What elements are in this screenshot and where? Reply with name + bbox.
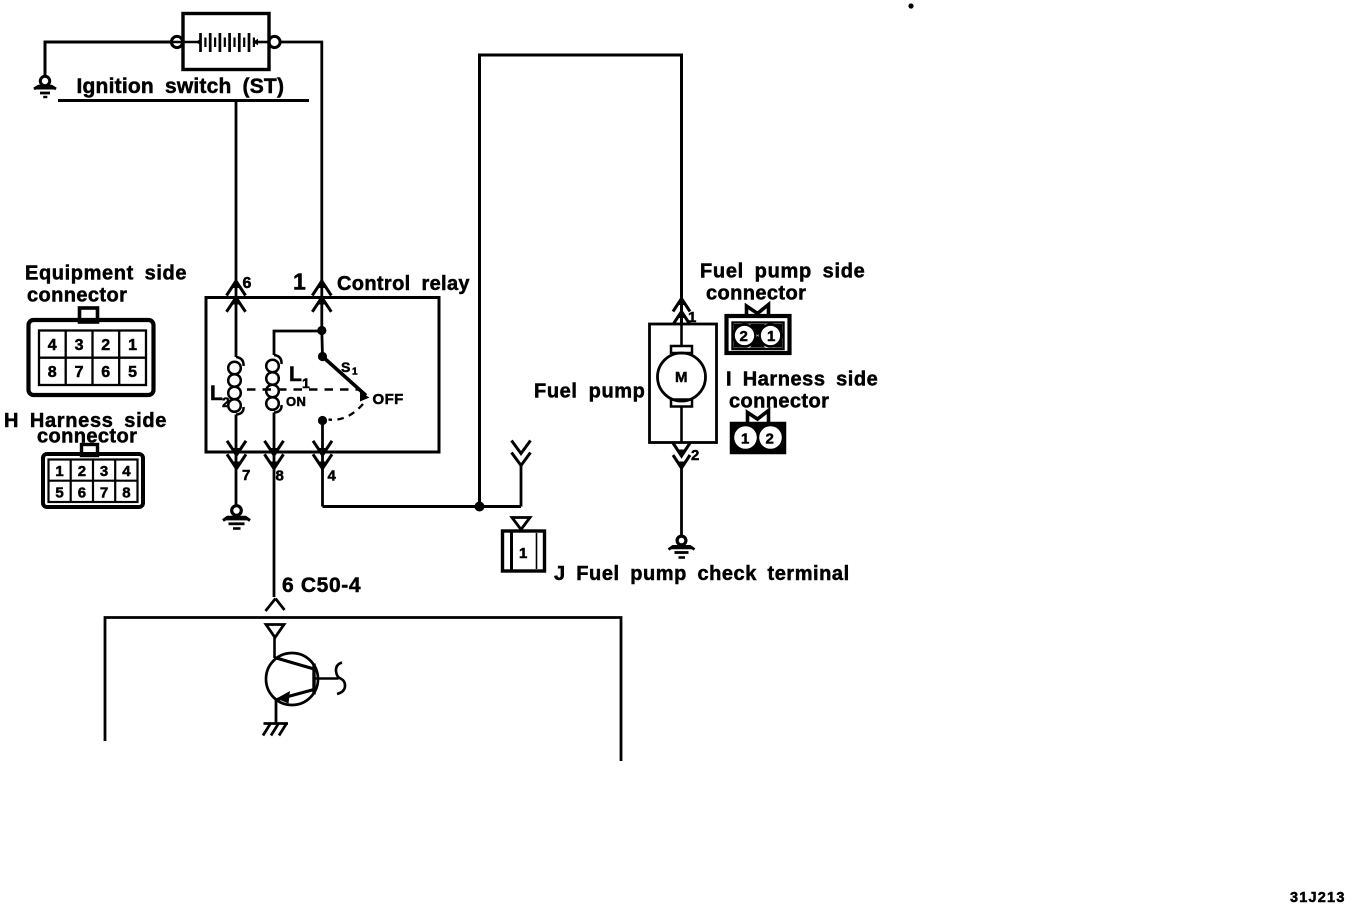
svg-text:1: 1	[519, 545, 527, 562]
relay pin 6 arrow	[227, 280, 246, 312]
svg-text:Control relay: Control relay	[337, 273, 470, 295]
svg-text:2: 2	[101, 337, 110, 354]
H harness side connector (8 pin)	[43, 445, 143, 508]
transistor Q1	[266, 653, 339, 723]
switch S1 arm	[323, 357, 367, 396]
ground G1	[34, 76, 56, 97]
svg-text:Fuel pump side: Fuel pump side	[700, 261, 865, 283]
svg-text:4: 4	[48, 337, 57, 354]
svg-text:2: 2	[691, 447, 699, 464]
svg-text:4: 4	[122, 463, 131, 480]
svg-text:5: 5	[55, 485, 63, 502]
I harness side connector C2	[731, 411, 785, 454]
relay pin 8 arrow	[265, 441, 284, 470]
svg-text:6: 6	[101, 364, 110, 381]
dashed arc OFF to lower contact	[329, 404, 364, 420]
switch lower node	[318, 416, 327, 425]
svg-text:8: 8	[276, 468, 284, 485]
svg-text:6: 6	[78, 485, 86, 502]
underline of ignition switch	[58, 99, 309, 102]
svg-text:M: M	[675, 369, 688, 386]
wire triangle to transistor	[273, 638, 276, 659]
motor M circle	[658, 353, 706, 401]
connector C50-4 inline symbol	[266, 599, 285, 612]
svg-text:1: 1	[293, 269, 306, 295]
motor brush bottom	[671, 400, 692, 407]
svg-text:8: 8	[48, 364, 57, 381]
svg-text:1: 1	[302, 375, 310, 391]
check terminal stub wire	[520, 464, 523, 507]
svg-text:Equipment side: Equipment side	[25, 263, 187, 285]
svg-text:4: 4	[328, 468, 337, 485]
base lead squiggle (wire continues)	[336, 663, 345, 695]
relay pin 7 arrow	[227, 441, 246, 470]
svg-text:5: 5	[128, 364, 137, 381]
ground G2 under pin 7	[223, 506, 250, 529]
svg-text:8: 8	[122, 485, 130, 502]
wire between switch nodes	[320, 331, 324, 357]
wire L1 top link to pin1 node	[274, 331, 322, 355]
relay pin 4 arrow	[313, 441, 332, 470]
svg-text:7: 7	[242, 467, 250, 484]
switch S1 contact	[360, 392, 370, 402]
wire battery to ground	[45, 42, 172, 76]
wire pin 4 horizontal to junction	[323, 505, 522, 508]
svg-text:connector: connector	[729, 391, 829, 413]
dashed mechanical link	[247, 388, 360, 391]
triangle pin into ECU	[266, 625, 284, 638]
svg-text:Fuel pump: Fuel pump	[534, 381, 646, 403]
fuel pump pin 2 arrow	[673, 443, 690, 469]
motor brush top	[671, 346, 692, 353]
check terminal J box	[503, 531, 545, 571]
switch S1 pivot node	[318, 352, 327, 361]
check terminal J inner lines	[510, 532, 513, 570]
switch S1 node top	[317, 326, 326, 335]
wire battery to relay pin 1	[280, 42, 322, 330]
fuel pump box	[650, 324, 717, 443]
wire main feed: junction up, across top, down to fuel pump	[480, 55, 682, 507]
wire L2 to relay bottom and ground	[235, 415, 238, 506]
svg-text:3: 3	[75, 337, 84, 354]
svg-text:31J213: 31J213	[1290, 890, 1346, 906]
fuel pump pin 1 arrow	[673, 298, 690, 325]
svg-text:connector: connector	[27, 285, 127, 307]
svg-text:ON: ON	[286, 394, 306, 409]
svg-text:2: 2	[78, 463, 86, 480]
equipment side connector (8 pin)	[29, 308, 154, 395]
svg-text:6: 6	[243, 275, 252, 292]
node junction A	[475, 502, 485, 512]
svg-text:J Fuel pump check terminal: J Fuel pump check terminal	[554, 563, 850, 585]
stray ink speck	[908, 3, 913, 8]
wire ignition switch to relay pin 6	[235, 101, 238, 357]
svg-text:6 C50-4: 6 C50-4	[282, 574, 361, 597]
svg-text:2: 2	[740, 328, 748, 345]
svg-text:1: 1	[688, 309, 696, 326]
relay pin 1 arrow	[312, 280, 331, 312]
svg-text:S: S	[341, 359, 350, 375]
svg-text:1: 1	[55, 463, 63, 480]
wire L1 bottom to relay edge and down	[273, 413, 276, 598]
svg-text:2: 2	[222, 394, 230, 410]
wire pump to ground	[680, 468, 683, 536]
svg-text:7: 7	[100, 485, 108, 502]
svg-text:7: 7	[75, 364, 84, 381]
wire inside pump	[680, 324, 683, 346]
wire pin 4 down	[321, 421, 324, 507]
fuel pump side connector C1	[727, 305, 790, 354]
svg-text:2: 2	[766, 431, 774, 448]
svg-text:1: 1	[352, 367, 358, 378]
control relay box	[206, 298, 439, 453]
svg-text:I Harness side: I Harness side	[726, 369, 878, 391]
svg-text:OFF: OFF	[373, 391, 404, 408]
svg-text:3: 3	[100, 463, 108, 480]
check stub arrow (double chevron down)	[512, 441, 531, 466]
ground G3 under fuel pump	[669, 536, 695, 557]
svg-text:1: 1	[741, 431, 749, 448]
coil L1	[266, 355, 281, 413]
svg-text:1: 1	[767, 328, 775, 345]
svg-text:1: 1	[128, 337, 137, 354]
svg-text:Ignition switch (ST): Ignition switch (ST)	[77, 75, 285, 98]
battery B1 (ignition switch supply)	[171, 14, 280, 70]
coil L2	[228, 357, 243, 415]
svg-text:connector: connector	[706, 283, 806, 305]
check terminal J triangle	[512, 518, 530, 530]
svg-text:L: L	[289, 363, 302, 386]
chassis ground under transistor	[263, 724, 288, 736]
ECU box (bottom, partial)	[105, 618, 621, 762]
